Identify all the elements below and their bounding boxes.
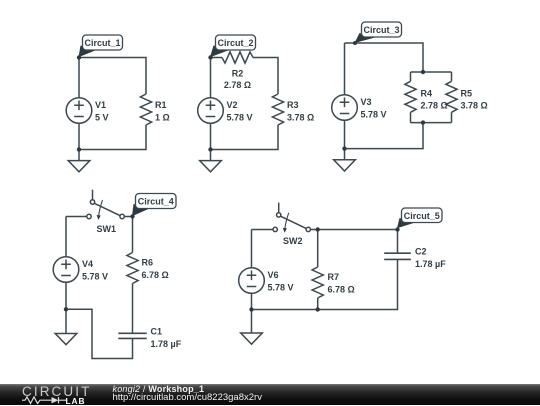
svg-text:C1: C1	[151, 327, 163, 337]
svg-text:R3: R3	[287, 100, 299, 110]
svg-text:V3: V3	[361, 97, 372, 107]
svg-text:R6: R6	[142, 258, 154, 268]
svg-text:V1: V1	[95, 100, 106, 110]
svg-text:V2: V2	[227, 100, 238, 110]
svg-text:5 V: 5 V	[95, 113, 109, 123]
svg-text:3.78 Ω: 3.78 Ω	[461, 101, 488, 111]
svg-text:6.78 Ω: 6.78 Ω	[142, 270, 169, 280]
svg-text:2.78 Ω: 2.78 Ω	[224, 80, 251, 90]
svg-text:2.78 Ω: 2.78 Ω	[421, 101, 448, 111]
svg-text:R2: R2	[232, 69, 244, 79]
svg-text:1 Ω: 1 Ω	[155, 113, 170, 123]
svg-text:5.78 V: 5.78 V	[82, 272, 108, 282]
svg-text:1.78 µF: 1.78 µF	[151, 339, 182, 349]
svg-text:R5: R5	[461, 89, 473, 99]
svg-text:V4: V4	[82, 259, 93, 269]
svg-text:Circut_3: Circut_3	[363, 25, 399, 35]
svg-text:Circut_4: Circut_4	[138, 197, 174, 207]
svg-text:SW2: SW2	[283, 236, 303, 246]
svg-text:5.78 V: 5.78 V	[361, 110, 387, 120]
svg-text:R1: R1	[155, 100, 167, 110]
svg-text:R7: R7	[328, 272, 340, 282]
svg-text:Circut_5: Circut_5	[404, 211, 440, 221]
svg-text:SW1: SW1	[97, 224, 117, 234]
svg-text:Circut_1: Circut_1	[84, 38, 120, 48]
svg-text:6.78 Ω: 6.78 Ω	[328, 285, 355, 295]
svg-text:3.78 Ω: 3.78 Ω	[287, 113, 314, 123]
svg-text:5.78 V: 5.78 V	[227, 113, 253, 123]
svg-text:5.78 V: 5.78 V	[268, 283, 294, 293]
svg-text:1.78 µF: 1.78 µF	[415, 259, 446, 269]
svg-text:Circut_2: Circut_2	[217, 38, 253, 48]
svg-text:V6: V6	[268, 270, 279, 280]
svg-text:R4: R4	[421, 89, 433, 99]
svg-text:C2: C2	[415, 247, 427, 257]
